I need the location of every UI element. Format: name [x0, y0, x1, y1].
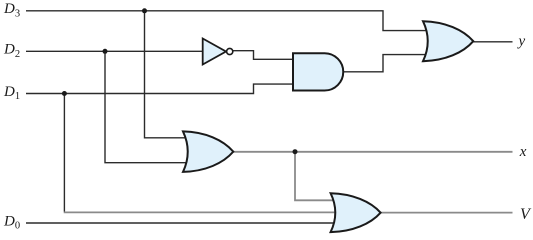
wire D1 route horizontal to OR U5 middle input — [64, 211, 338, 213]
wire inverter output to AND U2 top input — [233, 51, 295, 60]
and-gate U2 — [293, 53, 343, 90]
wire D3 horizontal to right bend into OR U3 — [26, 11, 430, 31]
svg-text:x: x — [519, 144, 527, 160]
node junction on D3 — [142, 8, 147, 13]
wire AND U2 output up into OR U3 bottom input — [343, 55, 430, 72]
node junction on D2 — [103, 49, 108, 54]
wire D3 branch vertical down to OR U4 top input — [145, 11, 193, 138]
wire x branch down to OR U5 top input — [295, 152, 337, 201]
svg-text:D2: D2 — [3, 42, 20, 60]
or-gate U4 (output x) — [183, 131, 233, 172]
wire D1 horizontal with step up to AND U2 bottom input — [26, 84, 295, 93]
wire D2 horizontal into inverter — [26, 50, 204, 52]
wire D1 branch vertical down — [63, 94, 65, 212]
inverter U1 (NOT gate on D2) — [203, 39, 233, 65]
wire output y — [473, 41, 512, 43]
wire output V from OR U5 — [381, 212, 513, 214]
svg-text:D3: D3 — [3, 1, 20, 19]
svg-text:D1: D1 — [3, 84, 20, 102]
or-gate U5 (output V) — [331, 193, 381, 232]
or-gate U3 (output y) — [423, 21, 473, 61]
svg-text:y: y — [517, 33, 526, 49]
wire output x from OR U4 — [233, 151, 512, 153]
wire D2 branch vertical down to OR U4 bottom input — [105, 51, 190, 162]
node junction on x line — [293, 149, 298, 154]
node junction on D1 — [62, 91, 67, 96]
svg-text:V: V — [520, 206, 532, 223]
svg-text:D0: D0 — [3, 213, 20, 231]
wire D0 horizontal into OR U5 bottom input — [26, 222, 335, 224]
